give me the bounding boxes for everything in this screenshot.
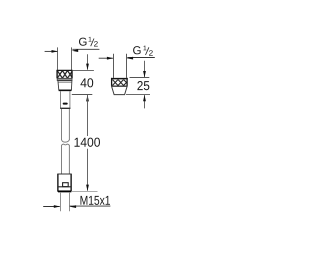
dimension 25: top extension line	[130, 77, 150, 79]
top thread extension line left	[57, 47, 59, 70]
top nut top edge	[57, 69, 73, 71]
right nut white body	[111, 78, 128, 86]
dimension 25: top arrow line	[144, 61, 146, 77]
hose lower segment right wall	[68, 145, 70, 174]
dimension G1/2 top-right: right arrowhead	[127, 57, 134, 60]
right pipe wall left	[113, 54, 115, 78]
label 40	[80, 78, 93, 87]
bottom block left side thick	[57, 174, 59, 192]
dimension 40: top extension line	[72, 69, 94, 71]
dimension 40/1400 shared up arrowhead	[86, 95, 89, 101]
right pipe wall right	[126, 54, 128, 78]
dimension 40: top arrowhead	[86, 64, 89, 70]
dimension M15x1: right shelf line	[70, 205, 111, 207]
dimension M15x1: left arrowhead	[54, 205, 60, 208]
label G 1/2 (top-left): denominator 2	[94, 41, 98, 46]
dimension G1/2 top-right: left arrow tail	[99, 57, 113, 59]
dimension 1400: bottom arrowhead	[86, 185, 89, 191]
label G 1/2 (top-left): fraction slash	[91, 39, 94, 47]
bottom block right side thick	[70, 174, 72, 192]
top nut right side edge	[71, 70, 73, 78]
bottom block thick bottom edge	[58, 190, 71, 192]
label 25	[137, 81, 149, 90]
bottom outlet extension line right	[69, 193, 71, 212]
label G 1/2 (top-left): superscript 1	[89, 37, 92, 42]
dimension 1400: line upper part	[87, 95, 89, 136]
right nut left side edge	[111, 78, 113, 86]
top ferrule black tick	[63, 103, 68, 105]
dimension G1/2 top-right: left arrowhead	[107, 57, 114, 60]
label 1400	[75, 138, 101, 147]
label G 1/2 (top-right): fraction slash	[146, 47, 149, 55]
dimension 25: bottom extension line	[126, 94, 150, 96]
top thread extension line right	[71, 47, 73, 70]
top ferrule right wall	[69, 91, 71, 108]
dimension 25: bottom arrow line	[144, 95, 146, 108]
hose break upper dish curve	[62, 140, 70, 143]
right nut lower line	[111, 85, 128, 87]
bottom block inner horizontal line	[58, 186, 71, 188]
dimension G1/2 top-left: right arrowhead	[72, 49, 79, 52]
label G 1/2 (top-right): superscript 1	[143, 46, 146, 51]
hose upper segment left wall	[61, 109, 63, 140]
top nut white body	[57, 70, 73, 78]
top nut left side edge	[56, 70, 58, 78]
dimension G1/2 top-left: label shelf line	[72, 48, 99, 50]
dimension 40: bottom extension line	[72, 94, 93, 96]
right nut right side edge	[126, 78, 128, 86]
top ferrule left wall	[60, 91, 62, 108]
hose break lower wave curve	[62, 144, 70, 145]
dimension 25: top arrowhead	[143, 71, 146, 77]
label G 1/2 (top-right): denominator 2	[149, 50, 153, 55]
dimension 25: bottom arrowhead	[143, 95, 146, 101]
dimension M15x1: left arrow tail	[43, 206, 60, 208]
label M15x1	[81, 196, 110, 205]
top ferrule bottom edge	[60, 107, 70, 109]
right nut knurl crosshatch	[112, 80, 126, 86]
dimension 1400: line lower part	[87, 149, 89, 191]
dimension 40: top arrow line	[87, 54, 89, 69]
hose upper segment right wall	[68, 109, 70, 140]
bottom outlet extension line left	[60, 193, 62, 212]
bottom block body	[58, 174, 71, 191]
top nut gray band	[57, 78, 72, 80]
hose lower segment left wall	[61, 145, 63, 174]
dimension 1400: bottom extension line	[71, 191, 97, 193]
label G 1/2 (top-left): G	[79, 38, 87, 46]
top collar inner line	[58, 81, 72, 83]
top collar trapezoid	[58, 81, 72, 90]
dimension G1/2 top-left: left arrowhead	[52, 50, 58, 53]
top nut knurl crosshatch	[57, 71, 71, 78]
right cone trapezoid	[112, 86, 128, 94]
dimension G1/2 top-right: label shelf line	[127, 57, 155, 59]
top collar thick bottom edge	[59, 89, 72, 91]
label G 1/2 (top-right): G	[133, 46, 141, 54]
dimension M15x1: right arrowhead	[70, 205, 77, 208]
dimension G1/2 top-left: left arrow tail	[45, 50, 58, 52]
bottom block small rect detail	[63, 183, 69, 187]
right nut top thick edge	[111, 78, 128, 80]
